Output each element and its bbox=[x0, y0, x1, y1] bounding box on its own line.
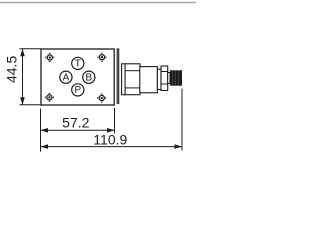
svg-text:44.5: 44.5 bbox=[4, 56, 20, 83]
port T bbox=[72, 57, 84, 69]
port A bbox=[60, 71, 72, 83]
dimension 44.5 (left) bbox=[4, 49, 41, 105]
collar bbox=[157, 69, 161, 89]
small hex bbox=[161, 66, 168, 91]
dimension 57.2 (bottom) bbox=[41, 108, 115, 152]
mounting hole bottom-right bbox=[97, 93, 107, 103]
port B bbox=[83, 71, 95, 83]
dimension 110.9 (bottom) bbox=[41, 89, 183, 151]
svg-text:P: P bbox=[74, 85, 81, 96]
mounting hole top-right bbox=[97, 52, 107, 62]
top separator rule bbox=[0, 2, 196, 4]
mounting hole top-left bbox=[45, 53, 55, 63]
port P bbox=[72, 84, 84, 96]
svg-text:A: A bbox=[63, 72, 70, 83]
svg-text:57.2: 57.2 bbox=[62, 114, 89, 130]
stem washer bbox=[122, 64, 126, 95]
cylinder body bbox=[140, 67, 158, 93]
svg-text:B: B bbox=[85, 72, 92, 83]
svg-text:110.9: 110.9 bbox=[93, 131, 127, 147]
threaded tip bbox=[170, 70, 182, 85]
mounting hole bottom-left bbox=[45, 93, 55, 103]
hex nut bbox=[125, 64, 140, 95]
end strip plate bbox=[117, 49, 119, 103]
svg-text:T: T bbox=[75, 59, 81, 70]
neck bbox=[168, 73, 170, 84]
valve body plate (top view) bbox=[41, 49, 114, 105]
